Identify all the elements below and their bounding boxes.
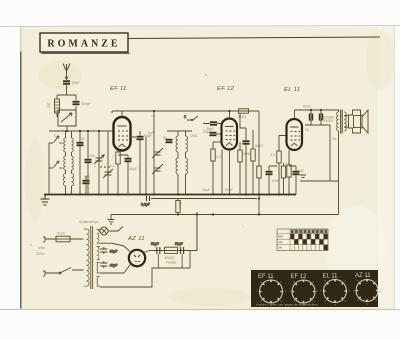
- svg-text:7: 7: [112, 155, 114, 159]
- filament caps 40uF a: [100, 247, 117, 254]
- svg-text:50kΩ: 50kΩ: [255, 144, 263, 148]
- svg-text:150: 150: [84, 175, 90, 179]
- svg-text:0,3: 0,3: [110, 164, 115, 168]
- svg-text:0,1: 0,1: [54, 134, 59, 138]
- svg-text:AZ 11: AZ 11: [355, 273, 371, 279]
- EL11 plate rail to transformer: [295, 109, 335, 111]
- scan mottling: [25, 30, 394, 306]
- svg-text:10nF: 10nF: [272, 179, 280, 183]
- grid line bus left section: [49, 130, 114, 132]
- svg-text:50μF: 50μF: [175, 242, 183, 246]
- ground bus: [44, 194, 296, 196]
- cathode loop: [100, 266, 190, 287]
- wire EF12 plate to rail: [229, 111, 231, 119]
- frame top border: [128, 37, 380, 39]
- svg-text:EF 11: EF 11: [258, 274, 274, 280]
- svg-text:EF 12: EF 12: [217, 86, 235, 92]
- B+ out wire: [190, 212, 197, 268]
- dial lamp: [100, 227, 123, 236]
- coupler box: [58, 110, 76, 126]
- coupling cap to EL11: [266, 166, 280, 195]
- EF11 cathode cap: [118, 155, 132, 195]
- plate rail EF11/EF12: [112, 111, 259, 114]
- svg-text:1MΩ: 1MΩ: [243, 152, 251, 156]
- filter cap 1: [151, 242, 160, 268]
- svg-text:25: 25: [305, 128, 309, 132]
- EF12 cathode resistor 1: [211, 142, 222, 195]
- antenna: [63, 64, 70, 81]
- resistor on rail drop x259: [257, 166, 261, 178]
- wire antenna to input loop: [66, 85, 68, 95]
- output transformer: [334, 110, 346, 134]
- resistor below y198: [176, 199, 182, 215]
- svg-text:50μF: 50μF: [225, 188, 233, 192]
- svg-text:EL 11: EL 11: [323, 274, 339, 280]
- tone cap 1: [303, 105, 313, 126]
- EL11 cathode components: [287, 150, 291, 195]
- page bottom edge: [0, 309, 400, 311]
- chassis ground at lamp: [108, 215, 115, 225]
- IF transformer coils: [167, 131, 192, 195]
- decoupling cap y198: [141, 195, 150, 207]
- page right edge: [393, 26, 395, 309]
- svg-text:Feldsp.: Feldsp.: [166, 261, 177, 265]
- svg-text:50: 50: [81, 137, 85, 141]
- input capacitor 500pF: [73, 101, 91, 106]
- page left edge above frame: [20, 27, 22, 52]
- IF transformer trimmers: [152, 148, 163, 174]
- speaker: [344, 110, 368, 133]
- oscillator switch K: [184, 115, 198, 121]
- tuner cap 3: [83, 176, 90, 195]
- rail corner down: [258, 111, 260, 215]
- svg-text:50μF: 50μF: [129, 167, 137, 171]
- EF11 cathode resistor: [116, 151, 120, 195]
- wire transformer down: [338, 131, 340, 215]
- svg-text:Ansicht v. unten bzw. gegen d: Ansicht v. unten bzw. gegen die Röhrenko…: [256, 303, 318, 307]
- tube AZ11: [129, 250, 145, 266]
- fuse: [56, 232, 70, 242]
- svg-text:5×20: 5×20: [57, 232, 65, 236]
- tube EF12: [222, 119, 238, 150]
- svg-text:150: 150: [298, 169, 304, 173]
- winding table: [277, 229, 328, 251]
- decoupling line y198: [151, 198, 257, 200]
- EF12 screen cap: [240, 113, 250, 195]
- tuner cap 2: [85, 131, 92, 195]
- svg-text:Skalenlampe: Skalenlampe: [79, 220, 99, 224]
- svg-text:40μF: 40μF: [110, 250, 118, 254]
- wire EF11 plate to rail: [121, 111, 123, 117]
- screen resistor above EF12: [238, 109, 249, 119]
- title box ROMANZE: [40, 33, 130, 53]
- EF12 plate resistor: [238, 142, 242, 195]
- grid resistor EL11 b: [281, 163, 285, 195]
- cathode out rail: [143, 251, 190, 253]
- cap above EF12 left: [203, 121, 222, 131]
- EL11 return line: [300, 180, 339, 182]
- svg-text:ROMANZE: ROMANZE: [47, 39, 120, 50]
- tube EF11: [112, 117, 131, 159]
- svg-text:40μF: 40μF: [202, 188, 210, 192]
- mains wires: [45, 239, 84, 273]
- svg-text:50pF: 50pF: [72, 81, 80, 85]
- vertical x330: [329, 125, 331, 181]
- wire coupler to grid line: [66, 126, 68, 131]
- filter cap 2: [175, 242, 184, 268]
- mains switch: [59, 268, 71, 274]
- chassis return line: [111, 215, 339, 251]
- frame left border: [20, 52, 22, 309]
- page top edge: [0, 26, 400, 27]
- vertical from rail x154: [153, 111, 155, 195]
- IF coupling cap: [163, 136, 173, 143]
- wire EF11 grid components: [145, 137, 147, 195]
- svg-text:50: 50: [163, 136, 167, 140]
- svg-text:KW: KW: [278, 240, 283, 244]
- svg-text:Netz: Netz: [38, 246, 45, 250]
- svg-text:100: 100: [89, 154, 95, 158]
- svg-text:50nF: 50nF: [303, 105, 311, 109]
- tube EL11: [287, 119, 303, 150]
- tube socket panel: [251, 270, 381, 307]
- svg-text:40μF: 40μF: [110, 264, 118, 268]
- heater rail top: [100, 243, 131, 252]
- EF11 screen cap: [130, 131, 152, 195]
- mains terminals: [43, 237, 45, 277]
- svg-text:220V~: 220V~: [35, 252, 46, 256]
- misc value labels: [54, 128, 336, 192]
- svg-text:50μF: 50μF: [151, 242, 159, 246]
- heater rail bottom: [100, 264, 131, 274]
- svg-text:MW: MW: [278, 235, 283, 239]
- svg-text:AZ 11: AZ 11: [127, 236, 145, 242]
- antenna coil 500: [47, 99, 60, 113]
- svg-text:LW: LW: [278, 246, 282, 250]
- wire EL11 grid left: [279, 136, 287, 152]
- input loop wires: [57, 95, 76, 117]
- wire EL11 plate up: [294, 110, 296, 119]
- power transformer: [84, 226, 100, 289]
- ground tick EL11: [300, 175, 306, 178]
- grid cap EF12: [203, 130, 222, 136]
- variable tuning capacitor: [94, 131, 113, 195]
- grid resistor EL11 a: [270, 151, 281, 195]
- svg-text:EL 11: EL 11: [284, 87, 300, 93]
- svg-text:0,3: 0,3: [270, 153, 275, 157]
- svg-text:0,5: 0,5: [285, 162, 290, 166]
- svg-text:Ra: Ra: [332, 137, 336, 141]
- socket pin numbers: [256, 275, 381, 307]
- svg-text:EF 11: EF 11: [110, 86, 127, 92]
- tuner coils: [63, 131, 73, 195]
- svg-text:0,2: 0,2: [216, 155, 221, 159]
- svg-text:50pF: 50pF: [203, 130, 211, 134]
- svg-text:6000Ω: 6000Ω: [165, 256, 176, 260]
- antenna series capacitor: [63, 80, 80, 85]
- cap bottom line: [305, 124, 330, 126]
- filament caps 40uF b: [100, 261, 117, 268]
- EF12 pin wire: [222, 150, 230, 195]
- field coil 6000: [165, 247, 178, 264]
- svg-text:500pF: 500pF: [81, 102, 91, 106]
- junction dots: [64, 109, 322, 216]
- resistor x253: [251, 130, 255, 195]
- svg-text:500: 500: [47, 102, 51, 108]
- chassis ground symbol: [41, 195, 50, 206]
- svg-text:0,1μF: 0,1μF: [141, 203, 150, 207]
- band switch contacts: [49, 136, 63, 193]
- tuner cap 1: [77, 131, 84, 195]
- svg-text:20kΩ: 20kΩ: [178, 201, 182, 209]
- tone cap 2: [319, 110, 335, 125]
- svg-text:1MΩ: 1MΩ: [190, 134, 198, 138]
- svg-text:1500V: 1500V: [324, 119, 335, 123]
- svg-text:61kΩ: 61kΩ: [238, 115, 246, 119]
- svg-text:5nF: 5nF: [148, 131, 154, 135]
